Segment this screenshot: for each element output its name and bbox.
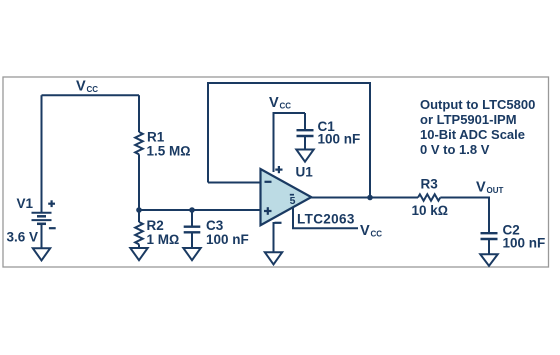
svg-text:R1: R1 [147,130,165,145]
wire node A to R2 top [138,210,140,222]
capacitor C1 plates [297,129,314,131]
battery minus sign [49,227,56,229]
wire node B to capacitor C3 [191,210,193,226]
op-amp inverting input minus sign [265,181,272,183]
svg-text:10 kΩ: 10 kΩ [412,203,449,218]
ground under C1 [296,150,313,162]
ground under C3 [183,248,200,260]
svg-text:5: 5 [290,195,296,207]
output node junction dot [367,195,373,201]
resistor R1 [135,132,143,154]
resistor R2 [135,222,143,244]
op-amp V+ plus sign [275,169,282,171]
svg-text:V: V [360,223,370,239]
ground under op-amp V- [265,252,282,264]
pin 5 overline [290,194,294,196]
svg-text:V: V [269,95,279,111]
ground under C2 [480,254,497,265]
node A junction dot [136,207,142,213]
svg-text:1 MΩ: 1 MΩ [147,232,180,247]
svg-text:1.5 MΩ: 1.5 MΩ [147,144,191,159]
svg-text:100 nF: 100 nF [503,236,546,251]
wire C3 bottom to ground [191,232,193,248]
wire R1 bottom to node A [138,154,140,210]
svg-text:R3: R3 [421,177,439,192]
wire battery bottom to ground [41,224,43,248]
capacitor C2 plates [481,232,498,234]
svg-text:V: V [76,79,86,95]
wire shdn pin 5 to Vcc [293,207,358,228]
svg-text:100 nF: 100 nF [206,232,249,247]
wire Vcc stub to capacitor C1 [304,113,306,130]
battery plus sign [48,200,56,228]
wire R2 bottom to ground [138,244,140,248]
capacitor C3 plates [184,225,201,227]
svg-text:R2: R2 [147,218,164,233]
svg-text:V: V [476,180,486,196]
svg-text:3.6 V: 3.6 V [7,230,39,245]
svg-text:or LTP5901-IPM: or LTP5901-IPM [420,112,517,127]
svg-text:LTC2063: LTC2063 [297,212,355,227]
wire C2 bottom to ground [488,239,490,255]
wire op-amp output to R3 [311,197,418,199]
op-amp U1 triangle [261,169,312,225]
svg-text:V1: V1 [17,196,34,211]
wire Vcc rail horizontal [42,94,140,96]
wire R3 to Vout corner [440,198,489,234]
op-amp non-inverting input plus sign [264,210,272,212]
svg-text:C3: C3 [206,218,224,233]
svg-text:CC: CC [280,102,292,111]
wire op-amp V- to ground [273,222,275,252]
svg-text:CC: CC [87,85,99,94]
border frame [3,77,549,267]
svg-text:0 V to 1.8 V: 0 V to 1.8 V [420,142,490,157]
battery V1 plates [32,212,52,214]
svg-text:100 nF: 100 nF [318,132,361,147]
wire feedback to op-amp - input [208,182,261,184]
wire node A to op-amp + input [139,209,261,211]
svg-text:OUT: OUT [487,186,504,195]
ground under battery V1 [33,248,50,260]
ground under R2 [130,248,147,260]
node B junction dot [189,207,195,213]
wire C1 bottom to ground [304,136,306,150]
svg-text:10-Bit ADC Scale: 10-Bit ADC Scale [420,127,525,142]
svg-text:Output to LTC5800: Output to LTC5800 [420,97,535,112]
wire op-amp V+ to Vcc stub [274,113,306,172]
resistor R3 [418,194,440,200]
svg-text:CC: CC [371,230,383,239]
wire Vcc rail to R1 top [138,95,140,132]
wire battery V1 top to Vcc rail [41,95,43,213]
op-amp V- minus sign [275,222,282,224]
svg-text:U1: U1 [296,165,314,180]
wire feedback loop [208,83,370,198]
